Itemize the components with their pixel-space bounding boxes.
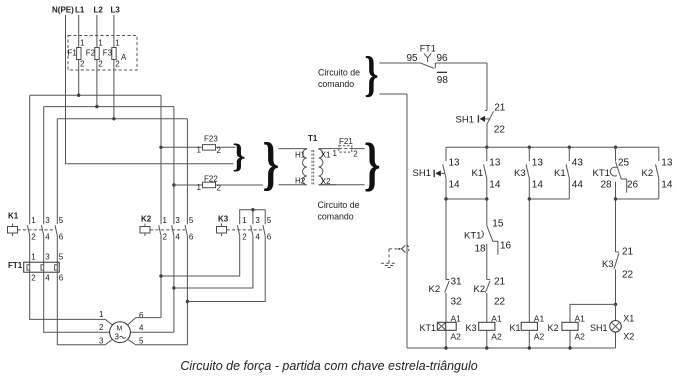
node branch KT1 — [614, 146, 617, 149]
svg-text:2: 2 — [217, 146, 222, 155]
contact KT1 timed 15-16-18 — [464, 219, 512, 280]
wire delta link 2 to K3 — [174, 236, 253, 288]
coil K2 — [548, 314, 586, 349]
fuse F1 — [68, 39, 86, 69]
svg-text:K1: K1 — [510, 323, 521, 333]
svg-text:1: 1 — [333, 149, 338, 158]
svg-text:2: 2 — [98, 60, 103, 69]
svg-text:21: 21 — [494, 277, 506, 288]
K3 pole 2 contact — [251, 225, 253, 236]
svg-text:K2: K2 — [642, 168, 654, 179]
svg-text:SH1: SH1 — [456, 115, 474, 126]
wires K1 to FT1 — [30, 236, 58, 262]
fuse F2 — [86, 39, 104, 69]
svg-text:4: 4 — [139, 324, 144, 333]
svg-text:3: 3 — [45, 253, 50, 262]
svg-text:6: 6 — [189, 233, 194, 242]
wire right vertical to K2 pole1 — [160, 95, 162, 224]
svg-text:K1: K1 — [8, 212, 19, 221]
svg-text:2: 2 — [99, 323, 104, 332]
svg-text:A1: A1 — [491, 314, 502, 324]
node branch K3 — [528, 146, 531, 149]
wire bottom bus — [407, 347, 616, 349]
brace command feed — [364, 47, 378, 102]
node lamp K2coil junction — [614, 303, 617, 306]
wire right vertical to K2 pole3 — [186, 119, 188, 224]
svg-text:3: 3 — [45, 216, 50, 225]
node segA right — [485, 197, 488, 200]
svg-text:H1: H1 — [295, 151, 306, 160]
svg-text:1: 1 — [80, 39, 85, 48]
svg-text:}: } — [232, 138, 245, 175]
wire command L feed — [380, 62, 421, 64]
coil K1 — [510, 314, 545, 349]
svg-text:6: 6 — [267, 233, 272, 242]
node bottom KT1 — [444, 346, 447, 349]
svg-text:1: 1 — [99, 310, 104, 319]
svg-text:22: 22 — [494, 297, 506, 308]
svg-text:4: 4 — [45, 233, 50, 242]
FT1 heater element pole1 — [27, 262, 30, 272]
contact K2 NC 31-32 — [429, 277, 463, 323]
wire left vertical pole1 — [29, 95, 31, 224]
svg-text:}: } — [263, 132, 280, 197]
svg-text:X1: X1 — [321, 151, 331, 160]
svg-text:KT1: KT1 — [420, 323, 437, 333]
node K2 pole3 motor junction — [186, 300, 189, 303]
FT1 trip contact 95-96 — [420, 54, 487, 69]
contact K2 NO 13-14 — [642, 147, 673, 199]
svg-text:A2: A2 — [491, 332, 502, 342]
K2 mechanical link dashed — [150, 229, 185, 231]
svg-text:5: 5 — [267, 216, 272, 225]
svg-text:A2: A2 — [534, 332, 545, 342]
wire delta link 1 to K3 — [161, 236, 240, 276]
wire FT1 pole3 to motor 3 — [57, 272, 113, 345]
overload relay FT1 box — [24, 262, 60, 272]
fuse F3 — [103, 39, 121, 69]
svg-text:2: 2 — [31, 274, 36, 283]
svg-text:31: 31 — [451, 277, 463, 288]
node segB left — [528, 197, 531, 200]
K3 pole 1 contact — [237, 225, 239, 236]
brace big right transformer — [364, 132, 381, 197]
node K2 pole2 motor junction — [172, 286, 175, 289]
contact K1 NO 13-14 — [472, 147, 501, 199]
svg-text:43: 43 — [572, 158, 584, 169]
svg-text:3: 3 — [175, 216, 180, 225]
svg-text:K2: K2 — [141, 215, 152, 224]
svg-text:L3: L3 — [111, 6, 121, 15]
K1 pole 1 contact — [27, 225, 29, 236]
svg-text:5: 5 — [59, 253, 64, 262]
svg-text:16: 16 — [500, 241, 512, 252]
wire N(PE) vertical — [65, 15, 67, 164]
contactor K3 coil symbol — [217, 224, 227, 237]
svg-text:2: 2 — [115, 60, 120, 69]
wire X2 secondary bottom — [319, 184, 365, 186]
fuse F23 — [197, 135, 222, 156]
wire bus L1 — [30, 94, 161, 96]
svg-text:5: 5 — [139, 337, 144, 346]
svg-text:44: 44 — [572, 180, 584, 191]
svg-text:K1: K1 — [554, 168, 566, 179]
svg-text:FT1: FT1 — [420, 44, 436, 54]
FT1 heater element pole3 — [55, 262, 58, 272]
svg-text:T1: T1 — [308, 134, 318, 143]
svg-text:A2: A2 — [575, 332, 586, 342]
svg-text:1: 1 — [98, 39, 103, 48]
K2 pole 3 contact — [185, 225, 187, 236]
pushbutton SH1 NO 13-14 — [413, 147, 461, 199]
svg-text:28: 28 — [601, 180, 613, 191]
node F23 tap — [159, 146, 162, 149]
wire L2 drop — [96, 15, 98, 107]
wire FT1 pole2 to motor 2 — [44, 272, 110, 332]
wire K2 pole1 down — [160, 236, 162, 318]
svg-text:KT1: KT1 — [464, 231, 481, 242]
node L1 junction — [77, 94, 80, 97]
wire seal-in segment A — [446, 198, 487, 200]
svg-text:2: 2 — [80, 60, 85, 69]
svg-text:F23: F23 — [204, 135, 218, 144]
transformer T1 secondary X winding — [319, 149, 336, 185]
wire F22 line — [174, 184, 263, 186]
brace small pair — [232, 138, 245, 175]
node F22 tap — [172, 183, 175, 186]
svg-text:4: 4 — [255, 233, 260, 242]
svg-text:H2: H2 — [295, 177, 306, 186]
svg-text:K1: K1 — [472, 168, 484, 179]
svg-text:2: 2 — [217, 184, 222, 193]
svg-text:4: 4 — [175, 233, 180, 242]
FT1 98 label with overline — [437, 72, 449, 86]
wire branch1 down — [445, 199, 447, 280]
svg-text:18: 18 — [475, 244, 487, 255]
contact K3 NC 21-22 — [602, 247, 634, 305]
svg-text:13: 13 — [449, 158, 461, 169]
node K2 pole1 motor junction — [159, 274, 162, 277]
node bottom K1 — [528, 346, 531, 349]
svg-text:21: 21 — [622, 247, 634, 258]
svg-text:6: 6 — [139, 311, 144, 320]
contact K2 NC 21-22 — [474, 277, 506, 323]
svg-text:2: 2 — [353, 150, 358, 159]
svg-text:96: 96 — [437, 53, 449, 64]
svg-text:L2: L2 — [94, 6, 104, 15]
wire motor 4 to K2 pole2 — [130, 331, 174, 333]
svg-text:14: 14 — [449, 180, 461, 191]
svg-text:comando: comando — [318, 79, 354, 89]
svg-text:F3: F3 — [103, 49, 113, 58]
wire branch3 down — [528, 199, 530, 322]
wire bus L3 — [57, 118, 187, 120]
wire FT1 to SH1 — [486, 63, 488, 110]
svg-text:2: 2 — [163, 233, 168, 242]
COMMAND-SECTION — [318, 44, 673, 350]
svg-text:}: } — [364, 132, 381, 197]
POWER-SECTION — [8, 6, 381, 346]
svg-text:3: 3 — [255, 216, 260, 225]
svg-text:14: 14 — [532, 180, 544, 191]
svg-text:X2: X2 — [623, 332, 634, 342]
svg-text:98: 98 — [437, 75, 449, 86]
wire segment C — [616, 198, 659, 200]
wire L3 drop — [113, 15, 115, 119]
wire command N feed — [380, 94, 408, 348]
svg-text:15: 15 — [492, 219, 504, 230]
K1 pole 3 contact — [55, 225, 57, 236]
node segC left — [614, 197, 617, 200]
node SH1 bus junction — [485, 146, 488, 149]
brace big left — [263, 132, 280, 197]
svg-text:2: 2 — [31, 233, 36, 242]
FT1 heater element pole2 — [41, 262, 44, 272]
svg-text:32: 32 — [451, 297, 463, 308]
svg-text:13: 13 — [489, 158, 501, 169]
wire L1 drop — [78, 15, 80, 95]
wire motor 5 to K2 pole3 — [127, 339, 187, 345]
pushbutton SH1 NC 21-22 — [456, 103, 506, 148]
contactor K1 coil symbol — [8, 224, 18, 237]
wire N(PE) horizontal to brace — [66, 163, 234, 165]
wire motor 6 to K2 pole1 — [127, 318, 161, 326]
wire delta link 3 to K3 — [187, 236, 265, 302]
wire K2 pole3 down — [186, 236, 188, 345]
svg-text:1: 1 — [115, 39, 120, 48]
node L3 junction — [112, 117, 115, 120]
K3 pole 3 contact — [263, 225, 265, 236]
svg-text:X1: X1 — [623, 314, 634, 324]
wire to K2 coil — [570, 304, 616, 322]
svg-text:SH1: SH1 — [413, 168, 431, 179]
wire K2 pole2 down — [173, 236, 175, 332]
node branch K1-43 — [568, 146, 571, 149]
svg-text:1: 1 — [197, 183, 202, 192]
K2 pole 2 contact — [172, 225, 174, 236]
svg-text:M: M — [117, 326, 123, 333]
svg-text:A1: A1 — [534, 314, 545, 324]
K3 star bridge — [240, 210, 266, 225]
svg-text:14: 14 — [489, 180, 501, 191]
wire FT1 pole1 to motor 1 — [30, 272, 113, 325]
svg-text:25: 25 — [618, 158, 630, 169]
wire command top bus — [446, 146, 659, 148]
svg-text:13: 13 — [532, 158, 544, 169]
node bottom K2 — [568, 346, 571, 349]
svg-text:5: 5 — [189, 216, 194, 225]
svg-text:L1: L1 — [75, 6, 85, 15]
svg-text:K3: K3 — [218, 215, 229, 224]
motor M1 circle — [110, 322, 131, 343]
node K3 star junction — [251, 208, 254, 211]
node segA left — [444, 197, 447, 200]
svg-text:FT1: FT1 — [8, 261, 23, 270]
svg-text:Circuito de: Circuito de — [318, 68, 360, 78]
svg-text:6: 6 — [59, 233, 64, 242]
svg-text:26: 26 — [627, 180, 639, 191]
svg-text:1: 1 — [31, 253, 36, 262]
svg-text:A: A — [121, 53, 127, 62]
wire F23 line — [161, 146, 236, 148]
svg-text:4: 4 — [45, 274, 50, 283]
svg-text:95: 95 — [407, 53, 419, 64]
wire branch2 down — [486, 199, 488, 226]
wire left vertical pole2 — [43, 107, 45, 225]
svg-text:K3: K3 — [466, 323, 477, 333]
svg-text:1: 1 — [31, 216, 36, 225]
svg-text:Circuito de: Circuito de — [318, 200, 360, 210]
svg-text:K2: K2 — [548, 323, 559, 333]
svg-text:K3: K3 — [602, 259, 614, 270]
svg-text:6: 6 — [59, 274, 64, 283]
wire segment B — [529, 198, 569, 200]
svg-text:3: 3 — [99, 337, 104, 346]
svg-text:F1: F1 — [68, 49, 78, 58]
wire left vertical pole3 — [56, 119, 58, 224]
fuse F21 dashed optional — [333, 137, 365, 159]
ground symbol dashed earth — [388, 249, 390, 263]
svg-text:1: 1 — [163, 216, 168, 225]
wire right vertical to K2 pole2 — [173, 107, 175, 225]
svg-text:KT1: KT1 — [593, 168, 610, 179]
contact K3 NO 13-14 — [514, 147, 543, 199]
svg-text:A1: A1 — [575, 314, 586, 324]
svg-text:3: 3 — [115, 333, 120, 342]
PE connector plug — [389, 248, 398, 250]
svg-text:K3: K3 — [514, 168, 526, 179]
K2 pole 1 contact — [159, 225, 161, 236]
svg-text:22: 22 — [622, 270, 634, 281]
svg-text:2: 2 — [242, 233, 247, 242]
contactor K2 coil symbol — [140, 224, 150, 237]
fuse group dashed box — [68, 36, 137, 71]
wire branch5 down — [615, 199, 617, 252]
svg-text:14: 14 — [661, 180, 673, 191]
svg-text:Circuito de força - partida co: Circuito de força - partida com chave es… — [180, 359, 477, 373]
lamp SH1 — [590, 304, 634, 348]
svg-text:K2: K2 — [429, 284, 441, 295]
svg-text:22: 22 — [494, 125, 506, 136]
contact KT1 timed 25-28-26 — [593, 147, 639, 199]
wire bus L2 — [44, 106, 174, 108]
fuse F22 — [197, 175, 222, 193]
svg-text:1: 1 — [197, 146, 202, 155]
svg-text:N(PE): N(PE) — [52, 6, 74, 15]
svg-text:}: } — [364, 47, 378, 102]
svg-text:comando: comando — [318, 212, 354, 222]
svg-text:A1: A1 — [451, 314, 462, 324]
svg-text:5: 5 — [59, 216, 64, 225]
contact K1 NO 43-44 — [554, 147, 583, 199]
node L2 junction — [95, 105, 98, 108]
svg-text:1: 1 — [242, 216, 247, 225]
transformer core — [312, 150, 314, 185]
svg-text:K2: K2 — [474, 284, 486, 295]
svg-text:F2: F2 — [86, 49, 96, 58]
svg-text:F21: F21 — [339, 137, 353, 146]
coil K3 — [466, 314, 502, 349]
K1 mechanical link dashed — [18, 229, 56, 231]
svg-text:21: 21 — [494, 103, 506, 114]
coil KT1 — [420, 314, 462, 349]
svg-text:SH1: SH1 — [590, 323, 608, 333]
K3 mechanical link dashed — [227, 229, 264, 231]
K1 pole 2 contact — [41, 225, 43, 236]
node bottom K3 — [485, 346, 488, 349]
transformer T1 primary H winding — [279, 149, 307, 185]
svg-text:13: 13 — [661, 158, 673, 169]
svg-text:A2: A2 — [451, 332, 462, 342]
